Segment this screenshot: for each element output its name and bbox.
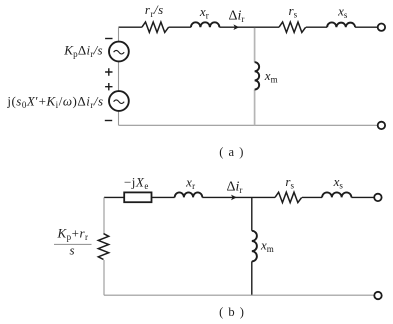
- svg-text:Δir: Δir: [228, 9, 244, 25]
- svg-text:xm: xm: [264, 68, 278, 85]
- svg-text:−jXe: −jXe: [124, 174, 149, 191]
- svg-text:rr/s: rr/s: [145, 2, 164, 19]
- svg-text:( a ): ( a ): [219, 145, 244, 159]
- svg-text:xs: xs: [333, 174, 344, 191]
- svg-text:rs: rs: [285, 174, 294, 191]
- svg-text:KpΔir/s: KpΔir/s: [63, 43, 103, 60]
- svg-text:xm: xm: [260, 238, 274, 255]
- svg-text:j(s0X′+Ki/ω)Δir/s: j(s0X′+Ki/ω)Δir/s: [6, 94, 103, 111]
- svg-text:xr: xr: [199, 4, 209, 21]
- svg-text:Kp+rr: Kp+rr: [56, 225, 88, 242]
- svg-text:xr: xr: [185, 174, 195, 191]
- svg-text:( b ): ( b ): [219, 305, 245, 319]
- svg-text:rs: rs: [289, 3, 298, 20]
- svg-text:Δir: Δir: [226, 179, 242, 195]
- svg-text:s: s: [69, 243, 74, 258]
- svg-text:xs: xs: [337, 4, 348, 21]
